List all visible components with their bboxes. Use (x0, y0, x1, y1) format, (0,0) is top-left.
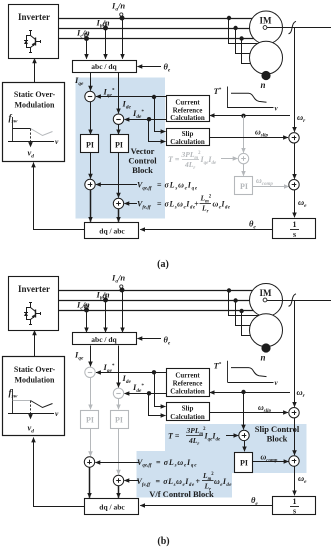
shaft line (b) (266, 300, 331, 302)
box: PI q-axis (a) (81, 135, 99, 153)
wire: PI1 to voltage sum q gray (b) (90, 428, 92, 456)
svg-text:Calculation: Calculation (170, 114, 205, 122)
wire: omega_e to integrator (b) (294, 466, 296, 495)
IGBT symbol (b) (30, 302, 32, 308)
wire: torque formula to sum gray (a) (221, 158, 238, 160)
wire: voltage q to dq/abc (a) (90, 190, 92, 222)
sum circle torque gray (a) (238, 153, 248, 163)
wire: PI2 to voltage sum d (a) (118, 153, 120, 198)
wire: sensor a drop to abc/dq (b) (122, 290, 124, 332)
wire: phase elbow c to machine (a) (242, 39, 253, 64)
svg-text:Static Over-: Static Over- (14, 90, 56, 99)
graph step segment (a) (13, 128, 31, 130)
machine IM stator circle (b) (250, 284, 283, 317)
wire: d error to PI2 (a) (118, 125, 120, 135)
box: PI d-axis (a) (111, 135, 129, 153)
svg-text:Control: Control (128, 156, 157, 166)
svg-text:Current: Current (175, 99, 200, 107)
svg-text:abc / dq: abc / dq (91, 62, 117, 71)
node: I_de* branch junction (a) (147, 117, 151, 121)
wire: phase elbow b to machine (b) (236, 301, 253, 326)
node: I_qe* branch junction (a) (152, 95, 156, 99)
wire: v branch to torque sum gray (a) (243, 116, 245, 153)
wire: V_qe,ff feedforward arrow (a) (96, 184, 137, 186)
sum circle voltage d (b) (113, 475, 123, 485)
wire: phase b line (b) (59, 300, 262, 302)
wire: omega_r feedback (b) (294, 301, 296, 407)
wire: omega_r feedback (a) (294, 28, 296, 132)
wire: PI1 to voltage sum q (a) (90, 153, 92, 179)
sum circle current q gray (b) (85, 367, 95, 377)
svg-text:Block: Block (132, 165, 153, 175)
svg-text:Vector: Vector (131, 146, 155, 156)
sum circle current d gray (b) (113, 388, 123, 398)
node: phase b junction (b) (233, 298, 237, 302)
machine load circle (b) (250, 314, 283, 347)
wire: d error to PI2 gray (b) (118, 399, 120, 410)
graph T* curve (a) (231, 93, 267, 102)
sum circle current d (a) (113, 114, 123, 124)
box: PI slip gray (a) (235, 177, 253, 195)
svg-text:PI: PI (115, 416, 123, 425)
box: Inverter (a) (9, 5, 59, 59)
current sensor c (b) (84, 308, 89, 313)
wire: I_qe* branch to Slip Calculation (b) (155, 373, 166, 407)
wire: torque sum to PI gray (a) (243, 164, 245, 176)
speed dot n (b) (261, 343, 270, 352)
wire: phase a line (b) (59, 290, 262, 292)
box: dq/abc (a) (85, 223, 139, 239)
wire: q error to PI1 gray (b) (90, 378, 92, 410)
wire: I_qe* branch to Slip Calculation (a) (155, 97, 166, 132)
svg-text:Calculation: Calculation (170, 138, 205, 146)
wire: phase elbow a to machine (a) (229, 19, 259, 44)
speed dot n (a) (261, 71, 270, 80)
svg-text:PI: PI (86, 416, 94, 425)
current sensor c (a) (84, 36, 89, 41)
wire: I_qe* reference (b) (96, 372, 167, 374)
box: Current Reference Calculation (a) (167, 96, 210, 122)
graph T* axes (b) (227, 361, 229, 383)
box: Slip Calculation (b) (167, 403, 210, 421)
svg-text:PI: PI (115, 141, 123, 150)
wire: v branch to torque sum (b) (243, 392, 245, 430)
box: Static Over-Modulation (b) (3, 357, 65, 436)
svg-text:Calculation: Calculation (170, 413, 205, 421)
blue region: V/f Control Block (b) (137, 451, 233, 498)
node: v branch junction (a) (241, 114, 245, 118)
wire: I_de from abc/dq (b) (118, 346, 120, 388)
svg-text:PI: PI (86, 141, 94, 150)
svg-text:+: + (196, 477, 201, 486)
svg-text:s: s (293, 230, 296, 239)
current sensor b (a) (103, 26, 108, 31)
svg-text:+: + (194, 200, 199, 209)
wire: sensor c drop to abc/dq (b) (86, 310, 88, 332)
wire: dq/abc to Static Over-Modulation (a) (34, 163, 85, 230)
box: Static Over-Modulation (a) (3, 83, 65, 162)
wire: theta_e from integrator to dq/abc (a) (140, 229, 273, 231)
svg-text:Calculation: Calculation (170, 388, 205, 396)
wire: sensor c drop to abc/dq (a) (86, 39, 88, 59)
wire: I_de* reference (a) (125, 119, 167, 121)
svg-text:IM: IM (260, 288, 273, 298)
wire: I_qe from abc/dq (b) (90, 346, 92, 367)
machine IM stator circle (a) (250, 11, 283, 44)
wire: phase a line (a) (59, 18, 262, 20)
graph dashed drop with arrow (b) (30, 401, 32, 419)
node: phase c junction (a) (239, 36, 243, 40)
wire: voltage d to dq/abc (a) (118, 209, 120, 222)
svg-text:(b): (b) (157, 536, 169, 547)
svg-text:Reference: Reference (173, 380, 203, 388)
wire: V_qe,ff feedforward arrow (b) (95, 462, 139, 464)
svg-text:s: s (293, 507, 296, 516)
machine load circle (a) (250, 41, 283, 74)
box: abc/dq (b) (73, 333, 137, 345)
svg-text:Slip Control: Slip Control (255, 424, 300, 434)
svg-text:V/f Control Block: V/f Control Block (149, 489, 214, 499)
svg-text:Block: Block (267, 434, 288, 444)
wire: theta_e into abc/dq (b) (137, 338, 161, 340)
wire: q error to PI1 (a) (90, 102, 92, 135)
graph axes (b) (12, 389, 14, 414)
box: integrator 1/s (b) (273, 497, 316, 515)
svg-text:T =: T = (168, 432, 180, 441)
wire: sensor b drop to abc/dq (a) (105, 28, 107, 59)
wire: voltage q to dq/abc (b) (89, 467, 91, 498)
wire: phase c line (b) (59, 310, 262, 312)
svg-text:PI: PI (240, 182, 248, 191)
svg-text:abc / dq: abc / dq (91, 335, 117, 344)
svg-text:Modulation: Modulation (14, 101, 55, 110)
svg-text:n: n (260, 353, 265, 363)
svg-text:IM: IM (260, 16, 273, 26)
graph vee segment (b) (31, 401, 53, 408)
IGBT symbol (a) (30, 30, 32, 36)
wire: phase elbow c to machine (b) (242, 311, 253, 336)
svg-text:1: 1 (293, 220, 297, 229)
sum circle voltage q (a) (85, 179, 95, 189)
wire: phase c line (a) (59, 38, 262, 40)
node: phase a junction (b) (227, 288, 231, 292)
wire: Static Over-Modulation to Inverter (b) (34, 330, 36, 357)
box: PI slip (b) (235, 453, 253, 473)
sum circle torque (b) (239, 430, 249, 440)
wire: voltage d to dq/abc (b) (118, 486, 120, 498)
node: phase a junction (a) (227, 16, 231, 20)
wire: I_qe* reference (a) (96, 96, 167, 98)
wire: torque sum to PI (b) (244, 441, 246, 452)
svg-text:dq / abc: dq / abc (99, 227, 125, 236)
sum circle voltage d (a) (113, 198, 123, 208)
wire: I_qe from abc/dq (a) (90, 73, 92, 91)
wire: omega_slip to sum (b) (209, 412, 288, 414)
svg-text:dq / abc: dq / abc (99, 503, 125, 512)
box: Current Reference Calculation (b) (167, 369, 210, 397)
wire: Static Over-Modulation to Inverter (a) (34, 58, 36, 82)
graph axes (a) (12, 117, 14, 142)
blue region: Vector Control Block (a) (76, 78, 166, 219)
wire: omega sum1 to sum2 (a) (294, 143, 296, 179)
shaft end small circle (b) (263, 298, 267, 302)
node: v branch junction (b) (241, 390, 245, 394)
wire: v into Current Reference Calculation (a) (210, 115, 290, 117)
svg-text:(a): (a) (157, 259, 169, 270)
box: PI q-axis gray (b) (81, 411, 99, 429)
current sensor b (b) (103, 298, 108, 303)
wire: omega_e to integrator (a) (294, 190, 296, 217)
current sensor a (b) (120, 288, 125, 293)
wire: phase elbow a to machine (b) (229, 291, 259, 316)
svg-text:=: = (156, 458, 161, 467)
box: integrator 1/s (a) (273, 219, 316, 239)
wire: theta_e from integrator to dq/abc (b) (140, 505, 273, 507)
wire: omega sum1 to sum2 (b) (294, 418, 296, 455)
sum circle omega 1 (b) (289, 408, 299, 418)
sum circle omega 1 (a) (289, 133, 299, 143)
box: abc/dq (a) (73, 61, 137, 73)
graph T* curve (b) (231, 368, 267, 377)
svg-text:=: = (157, 181, 162, 190)
box: dq/abc (b) (85, 499, 139, 515)
node: I_de* branch junction (b) (147, 391, 151, 395)
graph T* axes (a) (227, 87, 229, 109)
svg-text:Modulation: Modulation (14, 376, 55, 385)
box: Slip Calculation (a) (167, 129, 210, 146)
wire: sensor b drop to abc/dq (b) (105, 300, 107, 332)
wire: phase b line (a) (59, 28, 262, 30)
wire: PI2 to voltage sum d gray (b) (118, 428, 120, 475)
box: PI d-axis gray (b) (111, 411, 129, 429)
graph dashed drop with arrow (a) (30, 129, 32, 147)
blue region: Slip Control Block (b) (165, 424, 307, 473)
wire: dq/abc to Static Over-Modulation (b) (34, 438, 85, 507)
svg-text:Current: Current (175, 372, 200, 380)
node: phase c junction (b) (239, 309, 243, 313)
svg-text:1: 1 (293, 497, 297, 506)
svg-text:Inverter: Inverter (18, 12, 50, 22)
node: phase b junction (a) (233, 26, 237, 30)
current sensor a (a) (120, 16, 125, 21)
graph vee segment (a) (31, 129, 53, 136)
wire: theta_e into abc/dq (a) (137, 66, 161, 68)
speed sensor slash (b) (289, 294, 297, 307)
wire: omega_slip to sum (a) (209, 137, 288, 139)
wire: I_de* branch to Slip Calculation (b) (149, 394, 166, 416)
svg-text:n: n (260, 80, 265, 90)
svg-text:Inverter: Inverter (18, 284, 50, 294)
svg-text:=: = (157, 200, 162, 209)
wire: sensor a drop to abc/dq (a) (122, 18, 124, 59)
graph step segment (b) (13, 400, 31, 402)
shaft line (a) (266, 27, 331, 29)
wire: phase elbow b to machine (a) (236, 29, 253, 54)
svg-text:T =: T = (168, 155, 180, 164)
wire: I_de* branch to Slip Calculation (a) (149, 120, 166, 142)
wire: v into Current Reference Calculation (b) (210, 392, 290, 394)
svg-text:Static Over-: Static Over- (14, 365, 56, 374)
sum circle voltage q (b) (84, 457, 94, 467)
svg-text:Slip: Slip (182, 130, 194, 138)
shaft end small circle (a) (263, 26, 267, 30)
wire: torque formula to sum (b) (226, 435, 238, 437)
wire: PI to omega sum (b) (253, 461, 289, 463)
box: Inverter (b) (9, 277, 59, 331)
sum circle current q (a) (85, 91, 95, 101)
wire: V_fe,ff feedforward arrow (a) (124, 203, 137, 205)
wire: I_de* reference (b) (125, 393, 167, 395)
wire: I_de from abc/dq (a) (118, 73, 120, 114)
svg-text:PI: PI (240, 459, 248, 468)
svg-text:Slip: Slip (182, 405, 194, 413)
node: I_qe* branch junction (b) (152, 370, 156, 374)
sum circle omega 2 (b) (289, 456, 299, 466)
svg-text:=: = (156, 477, 161, 486)
wire: V_fe,ff feedforward arrow (b) (124, 480, 139, 482)
sum circle omega 2 (a) (289, 180, 299, 190)
speed sensor slash (a) (289, 21, 297, 34)
wire: PI to omega sum gray (a) (253, 186, 289, 188)
